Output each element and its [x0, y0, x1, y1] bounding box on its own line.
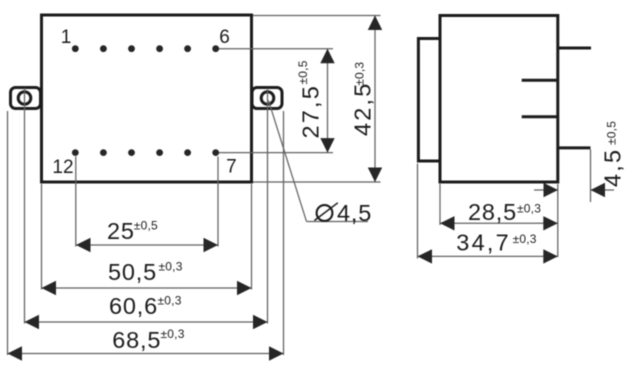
svg-text:50,5: 50,5 — [108, 259, 157, 285]
extension side flange down — [417, 164, 419, 259]
pin 1 dot — [72, 45, 79, 52]
dim line 28.5 — [440, 222, 558, 224]
dim line 25 — [76, 244, 218, 246]
svg-text:±0,3: ±0,3 — [517, 202, 541, 216]
svg-text:±0,3: ±0,3 — [158, 294, 182, 308]
extension side body right down — [557, 184, 559, 257]
pin 7 dot — [212, 149, 219, 156]
svg-text:±0,3: ±0,3 — [159, 260, 183, 274]
svg-text:6: 6 — [219, 27, 230, 48]
svg-text:4,5: 4,5 — [337, 200, 372, 226]
extension line pin7 down — [217, 157, 219, 247]
dim line 50.5 — [42, 287, 252, 289]
side pin bottom — [558, 146, 591, 149]
right mounting flange — [252, 88, 282, 109]
svg-text:42,5: 42,5 — [350, 81, 376, 136]
side pin top — [558, 47, 591, 50]
svg-text:27,5: 27,5 — [298, 84, 324, 139]
pin 12 dot — [72, 149, 79, 156]
dim line 68.5 — [8, 353, 284, 355]
extension line body bottom to 42.5 dim — [253, 181, 381, 183]
svg-text:68,5: 68,5 — [112, 327, 161, 353]
extension line pin6 row to 27.5 dim — [219, 48, 333, 50]
pin 11 dot — [100, 149, 107, 156]
extension side pin end down — [590, 150, 592, 203]
diameter symbol — [317, 205, 333, 221]
svg-text:±0,5: ±0,5 — [605, 121, 619, 145]
dim line 42.5 vertical — [374, 16, 376, 183]
leader line from right hole to diameter label — [269, 101, 307, 222]
side slot upper — [522, 79, 559, 82]
extension line left hole centre down — [24, 88, 26, 324]
right mounting hole — [261, 92, 274, 105]
extension line body right down — [251, 184, 253, 290]
extension line pin7 row to 27.5 dim — [219, 152, 333, 154]
side body outline — [440, 16, 558, 183]
svg-text:±0,3: ±0,3 — [353, 62, 367, 86]
extension line pin12 down — [75, 157, 77, 247]
transformer body outline (top view) — [42, 15, 252, 182]
dim line 60.6 — [25, 321, 268, 323]
svg-text:±0,5: ±0,5 — [134, 219, 158, 233]
svg-text:34,7: 34,7 — [456, 230, 511, 256]
pin 8 dot — [184, 149, 191, 156]
extension line body left down — [41, 184, 43, 290]
side slot lower — [522, 115, 559, 118]
pin 4 dot — [156, 45, 163, 52]
left mounting flange — [11, 88, 41, 109]
dim line 27.5 vertical — [327, 49, 329, 153]
pin 3 dot — [128, 45, 135, 52]
svg-text:12: 12 — [52, 157, 73, 178]
extension line left flange edge down — [7, 111, 9, 355]
extension line right hole centre down — [267, 88, 269, 324]
pin 2 dot — [100, 45, 107, 52]
left mounting hole — [18, 92, 31, 105]
svg-text:25: 25 — [107, 218, 135, 244]
svg-text:±0,5: ±0,5 — [296, 60, 310, 84]
side mounting flange — [418, 39, 440, 162]
extension side body left down — [439, 184, 441, 225]
svg-text:60,6: 60,6 — [109, 293, 158, 319]
svg-text:28,5: 28,5 — [468, 199, 517, 225]
svg-text:4,5: 4,5 — [600, 148, 626, 187]
pin 6 dot — [212, 45, 219, 52]
dim 4.5 pin length — [534, 189, 558, 191]
svg-text:±0,3: ±0,3 — [161, 327, 185, 341]
svg-text:1: 1 — [61, 27, 72, 48]
pin 10 dot — [128, 149, 135, 156]
extension line body top to 42.5 dim — [253, 15, 381, 17]
svg-text:7: 7 — [226, 157, 237, 178]
pin 5 dot — [184, 45, 191, 52]
svg-text:±0,3: ±0,3 — [513, 232, 537, 246]
extension line right flange edge down — [283, 111, 285, 355]
pin 9 dot — [156, 149, 163, 156]
dim line 34.7 — [418, 255, 558, 257]
